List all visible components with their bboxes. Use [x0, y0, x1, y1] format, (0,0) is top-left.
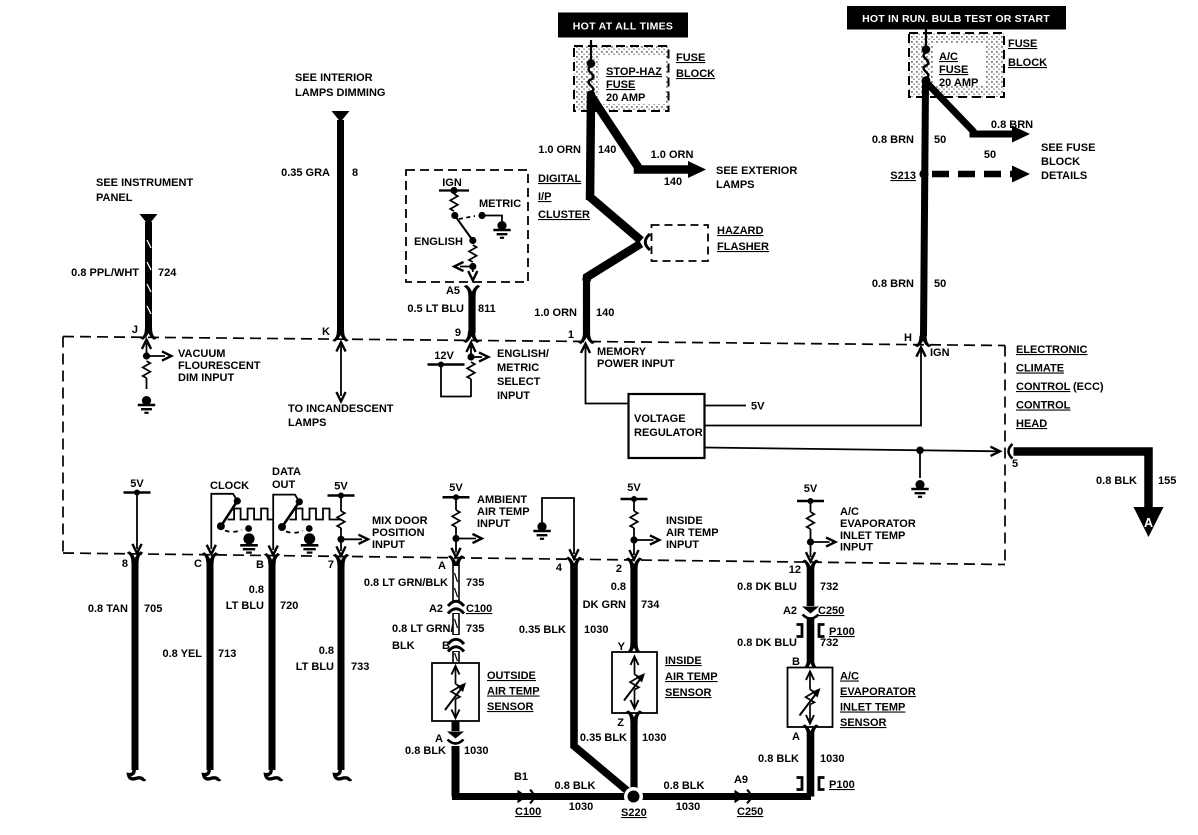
- 12V source: [428, 350, 472, 397]
- svg-text:12V: 12V: [434, 350, 454, 362]
- svg-text:FUSE: FUSE: [606, 79, 635, 91]
- pin 7 wire 0.8 LT BLU: [328, 554, 351, 780]
- switch arm to ENGLISH: [414, 216, 476, 249]
- METRIC contact: [459, 198, 521, 221]
- ground (J): [138, 396, 155, 413]
- svg-text:724: 724: [158, 267, 177, 279]
- svg-text:FLOURESCENT: FLOURESCENT: [178, 360, 261, 372]
- label 0.8 DK BLU 732 (lower): [737, 637, 838, 649]
- svg-text:1030: 1030: [820, 753, 844, 765]
- svg-text:732: 732: [820, 581, 838, 593]
- wire Z to S220: [617, 710, 642, 793]
- ground (pin 4): [533, 522, 550, 539]
- svg-text:0.8 BRN: 0.8 BRN: [991, 119, 1033, 131]
- svg-text:EVAPORATOR: EVAPORATOR: [840, 518, 916, 530]
- data ground: [301, 525, 319, 553]
- svg-text:BLOCK: BLOCK: [1008, 57, 1047, 69]
- label SEE INSTRUMENT PANEL: [96, 177, 193, 204]
- svg-text:5V: 5V: [449, 482, 463, 494]
- svg-text:0.8 LT GRN/BLK: 0.8 LT GRN/BLK: [364, 577, 448, 589]
- svg-text:VOLTAGE: VOLTAGE: [634, 413, 686, 425]
- svg-text:INPUT: INPUT: [497, 390, 530, 402]
- label ENGLISH/METRIC SELECT INPUT: [497, 348, 549, 402]
- svg-text:A2: A2: [783, 605, 797, 617]
- svg-text:INPUT: INPUT: [840, 542, 873, 554]
- svg-text:STOP-HAZ: STOP-HAZ: [606, 66, 662, 78]
- connector B (evap): [792, 656, 819, 670]
- A/C evaporator inlet temp sensor: [788, 668, 833, 728]
- svg-text:AIR TEMP: AIR TEMP: [665, 671, 718, 683]
- svg-text:0.8 BLK: 0.8 BLK: [405, 745, 446, 757]
- label STOP-HAZ FUSE 20 AMP: [606, 66, 662, 104]
- label 0.8 BRN 50 (branch): [984, 119, 1033, 161]
- svg-text:1030: 1030: [676, 801, 700, 813]
- label SEE EXTERIOR LAMPS: [716, 165, 797, 191]
- label 0.8 LT BLU 733: [296, 645, 370, 673]
- switch pivot node: [451, 212, 458, 219]
- svg-text:CLUSTER: CLUSTER: [538, 209, 590, 221]
- svg-text:TO INCANDESCENT: TO INCANDESCENT: [288, 403, 394, 415]
- label 0.8 BLK 1030 (bus right): [664, 780, 705, 813]
- svg-text:50: 50: [934, 134, 946, 146]
- svg-text:0.8: 0.8: [611, 581, 626, 593]
- svg-text:B1: B1: [514, 771, 528, 783]
- svg-text:BLK: BLK: [392, 640, 415, 652]
- resistor (J): [143, 361, 151, 389]
- svg-text:METRIC: METRIC: [497, 362, 539, 374]
- svg-text:INPUT: INPUT: [477, 518, 510, 530]
- wire 1.0 ORN to pin 1: [578, 279, 595, 344]
- svg-text:5V: 5V: [130, 478, 144, 490]
- svg-text:0.8: 0.8: [319, 645, 334, 657]
- 5V output of regulator: [705, 401, 766, 413]
- svg-text:INPUT: INPUT: [666, 539, 699, 551]
- svg-text:140: 140: [596, 307, 614, 319]
- svg-text:0.35 BLK: 0.35 BLK: [580, 732, 627, 744]
- clock channel (pin C): [207, 480, 249, 554]
- ground return line to pin 5: [705, 447, 1000, 479]
- data switch arm: [278, 498, 303, 531]
- label 1.0 ORN 140 (upper): [538, 144, 616, 156]
- svg-text:A: A: [1144, 516, 1153, 530]
- svg-text:OUT: OUT: [272, 479, 296, 491]
- digital I/P cluster dashed box: [406, 170, 528, 282]
- svg-text:LAMPS: LAMPS: [288, 417, 327, 429]
- svg-text:1.0 ORN: 1.0 ORN: [534, 307, 577, 319]
- fuse block (stop-haz) dashed box: [574, 46, 669, 111]
- svg-text:INSIDE: INSIDE: [665, 655, 702, 667]
- svg-text:(ECC): (ECC): [1073, 381, 1104, 393]
- connector P100 (upper): [797, 625, 855, 639]
- svg-text:POSITION: POSITION: [372, 527, 425, 539]
- svg-text:Z: Z: [617, 717, 624, 729]
- svg-text:LT BLU: LT BLU: [226, 600, 264, 612]
- svg-text:C250: C250: [818, 605, 844, 617]
- svg-text:155: 155: [1158, 475, 1176, 487]
- label VACUUM FLOURESCENT DIM INPUT: [178, 348, 261, 384]
- input 1: memory power: [581, 344, 629, 404]
- wire A (evap) to bus: [792, 724, 819, 796]
- svg-text:HOT AT ALL TIMES: HOT AT ALL TIMES: [573, 21, 673, 33]
- node IGN: [439, 177, 469, 194]
- label 0.8 TAN 705: [88, 603, 163, 615]
- svg-text:P100: P100: [829, 779, 855, 791]
- svg-text:0.8 DK BLU: 0.8 DK BLU: [737, 581, 797, 593]
- svg-text:DATA: DATA: [272, 466, 301, 478]
- svg-text:I/P: I/P: [538, 191, 551, 203]
- svg-text:DETAILS: DETAILS: [1041, 170, 1087, 182]
- svg-text:J: J: [132, 324, 138, 336]
- connector at hazard flasher: [645, 234, 650, 250]
- svg-text:0.8 BRN: 0.8 BRN: [872, 278, 914, 290]
- svg-text:705: 705: [144, 603, 162, 615]
- wire zigzag to hazard flasher: [587, 197, 642, 281]
- svg-text:CONTROL: CONTROL: [1016, 381, 1071, 393]
- svg-text:811: 811: [478, 303, 496, 315]
- svg-text:0.8: 0.8: [249, 584, 264, 596]
- wire segment to B (outlined): [455, 613, 458, 635]
- svg-text:5V: 5V: [751, 401, 765, 413]
- svg-text:5V: 5V: [334, 481, 348, 493]
- svg-text:FUSE: FUSE: [1008, 38, 1037, 50]
- label INSIDE AIR TEMP INPUT: [666, 515, 719, 551]
- connector A5: [446, 285, 480, 297]
- svg-text:C100: C100: [515, 806, 541, 818]
- svg-text:713: 713: [218, 648, 236, 660]
- pin B wire 0.8 LT BLU: [256, 553, 282, 780]
- wire 0.8 BLK 155 out: [1014, 452, 1164, 538]
- label FUSE BLOCK (right): [1008, 38, 1047, 69]
- wire down exiting cluster: [468, 267, 477, 281]
- wire branch to SEE FUSE BLOCK DETAILS: [926, 82, 1030, 143]
- svg-text:0.8 BRN: 0.8 BRN: [872, 134, 914, 146]
- svg-text:20 AMP: 20 AMP: [939, 77, 978, 89]
- data switch dashed: [286, 531, 303, 533]
- label 1.0 ORN 140 (branch): [651, 149, 694, 188]
- label 0.8 LT GRN/BLK 735 (lower): [392, 623, 484, 652]
- svg-text:FUSE: FUSE: [676, 52, 705, 64]
- svg-text:ENGLISH/: ENGLISH/: [497, 348, 549, 360]
- label SEE FUSE BLOCK DETAILS: [1041, 142, 1095, 182]
- svg-text:DK GRN: DK GRN: [583, 599, 626, 611]
- svg-text:MEMORY: MEMORY: [597, 346, 647, 358]
- svg-text:A5: A5: [446, 285, 460, 297]
- clock switch dashed: [225, 530, 242, 532]
- svg-text:MIX DOOR: MIX DOOR: [372, 515, 428, 527]
- label TO INCANDESCENT LAMPS: [288, 403, 394, 429]
- svg-text:H: H: [904, 332, 912, 344]
- svg-text:INPUT: INPUT: [372, 539, 405, 551]
- svg-text:C250: C250: [737, 806, 763, 818]
- svg-text:A9: A9: [734, 774, 748, 786]
- svg-text:IGN: IGN: [930, 347, 950, 359]
- svg-text:AMBIENT: AMBIENT: [477, 494, 527, 506]
- ground bus wire 0.8 BLK: [456, 793, 812, 797]
- svg-text:S220: S220: [621, 807, 647, 819]
- label A/C FUSE 20 AMP: [939, 51, 978, 89]
- svg-text:7: 7: [328, 559, 334, 571]
- connector A2 C100: [429, 601, 492, 615]
- svg-text:733: 733: [351, 661, 369, 673]
- svg-text:0.8 BLK: 0.8 BLK: [1096, 475, 1137, 487]
- label 0.8 LT BLU 720: [226, 584, 299, 612]
- svg-text:A: A: [438, 560, 446, 572]
- svg-text:CLOCK: CLOCK: [210, 480, 249, 492]
- ground stub (pin 4): [542, 498, 579, 559]
- svg-text:SELECT: SELECT: [497, 376, 541, 388]
- svg-text:S213: S213: [890, 170, 916, 182]
- node with left arrow: [454, 262, 476, 271]
- fuse STOP-HAZ 20A: [587, 40, 596, 99]
- svg-text:AIR TEMP: AIR TEMP: [666, 527, 719, 539]
- label A/C EVAPORATOR INLET TEMP INPUT: [840, 506, 916, 554]
- clock square wave: [228, 509, 274, 520]
- svg-text:8: 8: [122, 558, 128, 570]
- label SEE INTERIOR LAMPS DIMMING: [295, 72, 385, 99]
- connector pin 5: [1009, 444, 1019, 470]
- svg-text:1030: 1030: [569, 801, 593, 813]
- input J: vacuum flourescent dim: [142, 340, 172, 361]
- svg-text:0.35 GRA: 0.35 GRA: [281, 167, 330, 179]
- label FUSE BLOCK (left): [676, 52, 715, 80]
- ground (pin 5 line): [911, 480, 928, 497]
- label 0.35 BLK 1030 (pin 4): [519, 562, 609, 636]
- 5V source (pin 8): [124, 478, 151, 553]
- svg-text:1030: 1030: [464, 745, 488, 757]
- wire into sensor (outlined): [455, 651, 458, 663]
- splice S220: [621, 787, 647, 819]
- svg-text:HEAD: HEAD: [1016, 418, 1047, 430]
- svg-text:K: K: [322, 326, 330, 338]
- svg-text:CONTROL: CONTROL: [1016, 400, 1071, 412]
- label INSIDE AIR TEMP SENSOR: [665, 655, 718, 699]
- label MIX DOOR POSITION INPUT: [372, 515, 428, 551]
- svg-text:9: 9: [455, 327, 461, 339]
- wire 0.8 PPL/WHT to pin J: [140, 214, 158, 340]
- svg-text:20 AMP: 20 AMP: [606, 92, 645, 104]
- svg-text:SEE EXTERIOR: SEE EXTERIOR: [716, 165, 797, 177]
- pin C wire 0.8 YEL: [194, 552, 220, 779]
- svg-text:B: B: [792, 656, 800, 668]
- svg-text:A2: A2: [429, 603, 443, 615]
- svg-text:0.8 BLK: 0.8 BLK: [758, 753, 799, 765]
- svg-text:SENSOR: SENSOR: [840, 717, 887, 729]
- svg-text:LAMPS: LAMPS: [716, 179, 755, 191]
- pin 12 wire 0.8 DK BLU: [802, 560, 819, 607]
- resistor (IGN): [450, 194, 458, 211]
- svg-text:C: C: [194, 558, 202, 570]
- input K: to incandescent lamps: [336, 342, 345, 401]
- svg-text:735: 735: [466, 577, 484, 589]
- svg-text:PANEL: PANEL: [96, 192, 133, 204]
- wire 0.5 LT BLU to pin 9: [463, 295, 480, 343]
- svg-text:LT BLU: LT BLU: [296, 661, 334, 673]
- label 0.8 BRN 50 (lower): [872, 278, 946, 290]
- svg-text:0.8 DK BLU: 0.8 DK BLU: [737, 637, 797, 649]
- svg-text:INLET TEMP: INLET TEMP: [840, 530, 905, 542]
- header HOT IN RUN BULB TEST OR START: [847, 6, 1066, 30]
- wire 0.8 BLK below sensor: [435, 721, 464, 797]
- connector A2 C250: [783, 605, 844, 619]
- svg-text:8: 8: [352, 167, 358, 179]
- label 0.8 YEL 713: [162, 648, 236, 660]
- svg-text:A/C: A/C: [840, 506, 859, 518]
- connector B: [442, 639, 464, 652]
- inside air temp sensor: [612, 652, 657, 713]
- connector B1 C100: [514, 771, 541, 818]
- resistor (ENGLISH): [469, 245, 477, 262]
- label AMBIENT AIR TEMP INPUT: [477, 494, 530, 530]
- svg-text:B: B: [442, 640, 450, 652]
- label MEMORY POWER INPUT: [597, 346, 675, 370]
- svg-text:0.8 PPL/WHT: 0.8 PPL/WHT: [71, 267, 139, 279]
- svg-text:4: 4: [556, 562, 563, 574]
- svg-text:12: 12: [789, 564, 801, 576]
- label 0.8 BRN 50 (upper): [872, 134, 946, 146]
- dashed wire from S213: [932, 166, 1030, 183]
- svg-text:C100: C100: [466, 603, 492, 615]
- svg-text:1030: 1030: [584, 624, 608, 636]
- svg-text:POWER INPUT: POWER INPUT: [597, 358, 675, 370]
- svg-text:AIR TEMP: AIR TEMP: [487, 686, 540, 698]
- svg-text:A: A: [435, 733, 443, 745]
- splice S213: [890, 169, 928, 182]
- wire segment with P100: [807, 619, 815, 660]
- svg-text:720: 720: [280, 600, 298, 612]
- pin A wire 0.8 LT GRN/BLK (outlined): [438, 555, 464, 601]
- outside air temp sensor: [432, 663, 479, 721]
- svg-text:50: 50: [984, 149, 996, 161]
- header HOT AT ALL TIMES: [558, 13, 688, 38]
- svg-text:INSIDE: INSIDE: [666, 515, 703, 527]
- svg-text:FUSE: FUSE: [939, 64, 968, 76]
- label 0.8 LT GRN/BLK 735: [364, 577, 485, 589]
- data out channel (pin B): [269, 466, 301, 555]
- ECC control head dashed box: [63, 337, 1005, 565]
- 5V source (pin 12) evaporator inlet: [797, 483, 835, 562]
- connector P100 (lower): [797, 778, 855, 792]
- IGN line to pin H: [705, 347, 950, 426]
- svg-text:732: 732: [820, 637, 838, 649]
- label 0.8 BLK 1030 (outside): [405, 745, 488, 757]
- label 0.8 BLK 155: [1096, 475, 1176, 487]
- hazard flasher dashed box: [652, 225, 709, 261]
- label 0.8 BLK 1030 (bus left): [555, 780, 596, 813]
- label OUTSIDE AIR TEMP SENSOR: [487, 670, 540, 713]
- svg-text:LAMPS DIMMING: LAMPS DIMMING: [295, 87, 385, 99]
- label 0.8 BLK 1030 (evap): [758, 753, 844, 765]
- svg-text:A/C: A/C: [840, 671, 859, 683]
- svg-text:SENSOR: SENSOR: [487, 701, 534, 713]
- svg-text:ELECTRONIC: ELECTRONIC: [1016, 344, 1088, 356]
- svg-text:5: 5: [1012, 458, 1018, 470]
- svg-text:1: 1: [568, 329, 574, 341]
- svg-text:5V: 5V: [627, 482, 641, 494]
- label 0.35 GRA 8: [281, 167, 358, 179]
- svg-text:INLET TEMP: INLET TEMP: [840, 702, 905, 714]
- svg-text:ENGLISH: ENGLISH: [414, 236, 463, 248]
- label 0.8 DK GRN 734: [583, 563, 661, 611]
- svg-text:BLOCK: BLOCK: [676, 68, 715, 80]
- pin 2 wire 0.8 DK GRN: [618, 557, 643, 654]
- svg-text:1030: 1030: [642, 732, 666, 744]
- svg-text:CLIMATE: CLIMATE: [1016, 363, 1064, 375]
- label DIGITAL I/P CLUSTER: [538, 173, 590, 221]
- svg-text:734: 734: [641, 599, 660, 611]
- wire 0.8 BRN from A/C fuse down to H: [915, 83, 932, 347]
- label A/C EVAPORATOR INLET TEMP SENSOR: [840, 671, 916, 730]
- svg-text:A: A: [792, 731, 800, 743]
- voltage regulator U1: [629, 394, 705, 458]
- svg-text:HAZARD: HAZARD: [717, 225, 763, 237]
- data square wave: [290, 509, 342, 520]
- 5V source (pin A) ambient: [443, 482, 482, 557]
- svg-text:0.5 LT BLU: 0.5 LT BLU: [407, 303, 464, 315]
- svg-text:1.0 ORN: 1.0 ORN: [651, 149, 694, 161]
- svg-text:BLOCK: BLOCK: [1041, 156, 1080, 168]
- wire 0.35 GRA to pin K: [332, 111, 350, 342]
- label 0.5 LT BLU 811: [407, 303, 495, 315]
- input 9: english/metric select: [466, 343, 488, 362]
- fuse A/C 20A: [922, 29, 931, 85]
- label 0.8 DK BLU 732: [737, 564, 838, 593]
- svg-text:IGN: IGN: [442, 177, 462, 189]
- svg-text:0.8 BLK: 0.8 BLK: [664, 780, 705, 792]
- wire branch to SEE EXTERIOR LAMPS: [591, 96, 706, 178]
- svg-text:735: 735: [466, 623, 484, 635]
- pin 4 wire 0.35 BLK: [566, 557, 630, 793]
- label ELECTRONIC CLIMATE CONTROL (ECC) CONTROL HEAD: [1016, 344, 1104, 430]
- svg-text:DIM INPUT: DIM INPUT: [178, 372, 235, 384]
- svg-text:0.8 LT GRN/: 0.8 LT GRN/: [392, 623, 454, 635]
- svg-text:REGULATOR: REGULATOR: [634, 427, 703, 439]
- svg-text:50: 50: [934, 278, 946, 290]
- svg-text:VACUUM: VACUUM: [178, 348, 225, 360]
- svg-text:0.8 YEL: 0.8 YEL: [162, 648, 202, 660]
- connector A9 C250: [734, 774, 763, 818]
- svg-text:B: B: [256, 559, 264, 571]
- 5V source (pin 7) mix door: [328, 481, 368, 556]
- svg-text:5V: 5V: [804, 483, 818, 495]
- svg-text:AIR TEMP: AIR TEMP: [477, 506, 530, 518]
- svg-text:2: 2: [616, 563, 622, 575]
- svg-text:A/C: A/C: [939, 51, 958, 63]
- svg-text:METRIC: METRIC: [479, 198, 521, 210]
- label 0.35 BLK 1030 (Z): [580, 732, 667, 744]
- svg-text:SEE INTERIOR: SEE INTERIOR: [295, 72, 373, 84]
- svg-text:HOT IN RUN. BULB TEST OR START: HOT IN RUN. BULB TEST OR START: [862, 13, 1050, 25]
- wire 1.0 ORN from fuse down: [590, 97, 591, 200]
- svg-text:0.8 TAN: 0.8 TAN: [88, 603, 128, 615]
- ground (METRIC): [493, 221, 510, 238]
- svg-text:FLASHER: FLASHER: [717, 241, 769, 253]
- svg-text:SENSOR: SENSOR: [665, 687, 712, 699]
- label 1.0 ORN 140 (lower): [534, 307, 614, 319]
- svg-text:EVAPORATOR: EVAPORATOR: [840, 686, 916, 698]
- clock ground: [240, 525, 258, 553]
- svg-text:DIGITAL: DIGITAL: [538, 173, 581, 185]
- label 0.8 PPL/WHT 724: [71, 267, 177, 279]
- svg-text:140: 140: [598, 144, 616, 156]
- fuse block (A/C) dashed box: [909, 33, 1004, 97]
- clock switch arm: [217, 497, 241, 530]
- pin 8 wire 0.8 TAN: [122, 551, 145, 779]
- resistor (pin 9): [467, 362, 475, 397]
- label HAZARD FLASHER: [717, 225, 769, 253]
- svg-text:0.35 BLK: 0.35 BLK: [519, 624, 566, 636]
- svg-text:SEE INSTRUMENT: SEE INSTRUMENT: [96, 177, 193, 189]
- svg-text:OUTSIDE: OUTSIDE: [487, 670, 536, 682]
